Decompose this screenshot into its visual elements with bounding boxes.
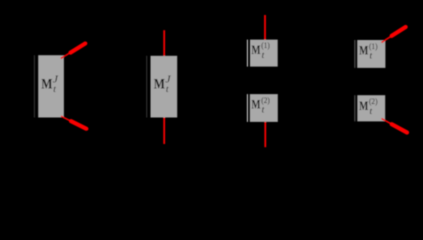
node bar1 (34, 55, 35, 117)
tensor box M_t^(1) (element 4 upper) (357, 40, 385, 68)
svg-text:(1): (1) (261, 40, 270, 50)
svg-text:t: t (262, 105, 265, 115)
svg-text:M: M (251, 97, 260, 111)
tensor box M_t^(2) (element 4 lower) (357, 95, 385, 121)
wire leg bottom-right of element 1 (61, 116, 88, 129)
svg-text:M: M (41, 77, 52, 93)
svg-text:M: M (154, 77, 165, 93)
svg-text:t: t (370, 52, 373, 62)
node bar4b (354, 95, 355, 121)
svg-text:M: M (359, 99, 368, 113)
tensor box M_t^(1) (element 3 upper) (250, 40, 278, 67)
label M_t^J (154, 75, 171, 95)
svg-text:J: J (165, 75, 171, 86)
node bar3b (247, 94, 248, 122)
svg-text:t: t (262, 51, 265, 61)
svg-text:J: J (53, 75, 59, 86)
tensor box M_t^J (element 2) (151, 56, 178, 118)
node bar3a (247, 40, 248, 67)
wire leg top-right of element 1 (61, 42, 87, 58)
svg-text:(2): (2) (369, 96, 378, 106)
tensor box M_t^J (element 1) (38, 55, 64, 117)
label M_t^(2) (251, 95, 269, 116)
svg-text:M: M (251, 43, 260, 57)
label M_t^(1) (359, 41, 377, 62)
wire top leg of element 2 (163, 30, 165, 56)
tensor box M_t^(2) (element 3 lower) (250, 94, 278, 122)
node bar2 (146, 56, 147, 118)
svg-text:(2): (2) (261, 95, 270, 105)
wire bottom leg of element 2 (163, 118, 165, 145)
wire bottom leg of element 3 (264, 122, 266, 147)
wire leg bottom-right of element 4 (382, 119, 409, 134)
svg-text:t: t (370, 107, 373, 117)
svg-text:t: t (166, 85, 169, 95)
wire top leg of element 3 (264, 15, 266, 40)
label M_t^(2) (359, 96, 377, 117)
svg-text:(1): (1) (369, 41, 378, 51)
label M_t^(1) (251, 40, 269, 61)
label M_t^J (41, 75, 58, 95)
svg-text:M: M (359, 44, 368, 58)
node bar4a (354, 40, 355, 68)
wire leg top-right of element 4 (382, 26, 408, 43)
svg-text:t: t (53, 85, 56, 95)
